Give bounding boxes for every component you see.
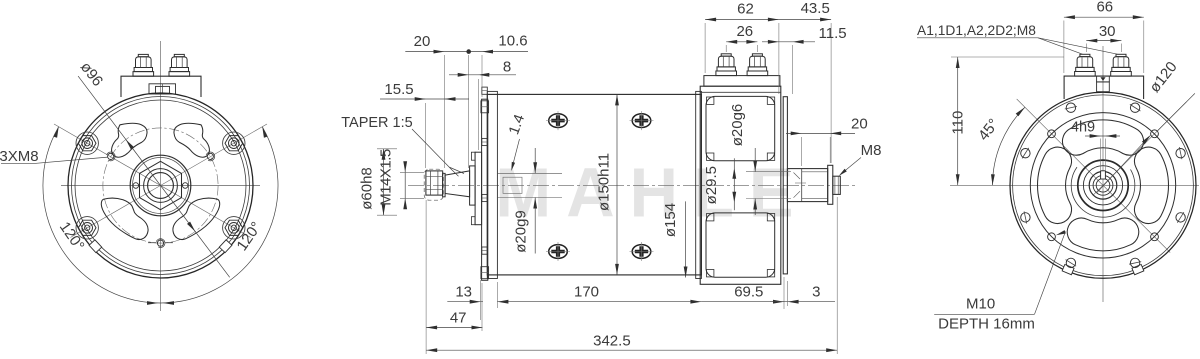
middle view cross screw top-left — [549, 114, 568, 128]
svg-text:62: 62 — [737, 1, 754, 18]
middle view end shield clip top — [481, 101, 489, 113]
middle dim dia20g9 arrows — [534, 198, 536, 254]
svg-text:TAPER 1:5: TAPER 1:5 — [341, 115, 412, 131]
left view centerline 30-210 diagonal — [70, 124, 267, 238]
right dim 66 line — [1064, 16, 1144, 18]
svg-text:DEPTH 16mm: DEPTH 16mm — [938, 316, 1035, 333]
left view hub circle — [130, 155, 191, 216]
left view bolt circle dash-dot — [103, 128, 218, 243]
left view through-bolt lower-right — [223, 217, 245, 239]
middle dim 62 line — [705, 19, 779, 21]
right view M10 hole lower-left — [1048, 233, 1056, 241]
svg-text:4h9: 4h9 — [1071, 120, 1095, 136]
left view terminal block connector detail — [149, 84, 176, 94]
middle dim 26 line — [726, 41, 757, 43]
left view bearing circle — [144, 169, 178, 203]
right view centerline diagonal 135 — [1017, 99, 1170, 253]
middle view nut dashed envelope — [424, 169, 443, 200]
right view terminal stud right — [1111, 72, 1132, 77]
svg-text:3XM8: 3XM8 — [0, 148, 39, 165]
right view terminal block marker detail — [1097, 76, 1110, 82]
right view M10 hole upper-left — [1048, 130, 1056, 138]
right view shaft bore — [1096, 179, 1110, 193]
left view hub notch left — [133, 183, 139, 189]
left view 120 degree arc left — [43, 127, 161, 303]
svg-text:8: 8 — [503, 59, 511, 76]
left view 120 arc right arrow bottom — [163, 301, 174, 305]
right view keyway slot — [1101, 171, 1106, 179]
middle view body band right — [696, 91, 702, 278]
left view dimension diameter 96 arrow upper — [126, 140, 134, 150]
left view 120 arc left arrow bottom — [147, 301, 158, 305]
right view rim screw at 112 deg — [1066, 258, 1075, 267]
middle M8 leader — [841, 158, 861, 175]
left view flange circle 2 — [72, 97, 250, 275]
right view rim screw at 247 deg — [1066, 103, 1075, 112]
middle view band clip tabs left edge — [482, 87, 488, 94]
svg-text:20: 20 — [851, 116, 868, 133]
svg-text:ø154: ø154 — [662, 203, 679, 237]
right view M10 hole upper-right — [1151, 130, 1159, 138]
svg-text:ø20g9: ø20g9 — [513, 210, 530, 253]
middle dim 20 stub line — [786, 132, 855, 134]
right view M10 hole lower-right — [1151, 233, 1159, 241]
svg-text:30: 30 — [1099, 23, 1116, 40]
right dim 30 line — [1086, 40, 1121, 42]
middle view cross screw bottom-left — [549, 245, 568, 259]
left view hub circle inner — [133, 158, 189, 214]
middle view shaft centerline — [408, 184, 858, 186]
left view outer flange circle — [68, 93, 253, 278]
left view through-bolt upper-left — [76, 132, 98, 154]
svg-text:170: 170 — [574, 284, 599, 301]
middle view shaft shoulder — [470, 166, 476, 205]
middle view terminal stud left — [716, 71, 737, 76]
right view face circle — [1030, 113, 1175, 258]
right view hub circle thick — [1078, 160, 1128, 210]
svg-text:M8: M8 — [861, 142, 882, 159]
middle dim 11.5 line — [762, 41, 815, 43]
middle view bearing plate tab bottom — [471, 217, 475, 225]
svg-text:M14X1.5: M14X1.5 — [377, 149, 394, 206]
middle view shaft stub chamfer detail — [794, 173, 807, 198]
left view terminal stud right — [169, 72, 190, 77]
middle view body band left — [487, 91, 497, 278]
middle dim M14X1.5 line — [404, 162, 406, 209]
right view shaft circle 2 — [1093, 175, 1113, 195]
svg-text:47: 47 — [450, 310, 467, 327]
left view dimension diameter 96 line — [78, 76, 230, 277]
right view hub arc — [1071, 167, 1135, 217]
middle taper leader — [412, 129, 464, 176]
left view kidney slot upper-right — [174, 123, 209, 157]
svg-text:3: 3 — [812, 284, 820, 301]
svg-text:A1,1D1,A2,2D2;M8: A1,1D1,A2,2D2;M8 — [917, 23, 1036, 38]
middle view output shaft stub — [787, 169, 827, 202]
left view M8 tapped hole bottom — [157, 240, 163, 246]
right view shaft circle — [1089, 172, 1117, 200]
left view dimension diameter 96 arrow lower — [187, 222, 195, 232]
middle dim 342.5 line — [426, 349, 837, 351]
middle dim 8 line — [449, 74, 516, 76]
left view terminal stud left — [133, 72, 154, 77]
svg-text:ø150h11: ø150h11 — [596, 153, 613, 211]
svg-text:342.5: 342.5 — [593, 333, 631, 350]
right view kidney right — [1134, 147, 1168, 223]
middle view drive housing block — [700, 86, 781, 284]
right view rim screw at 202 deg — [1021, 149, 1030, 158]
svg-text:20: 20 — [414, 33, 431, 50]
right view rim screw at 337 deg — [1176, 149, 1185, 158]
svg-text:43.5: 43.5 — [801, 0, 830, 17]
middle view motor body rectangle — [487, 94, 701, 275]
left view 120 degree arc right — [161, 127, 279, 303]
middle dim 3 line — [770, 301, 835, 303]
middle view terminal base plate — [704, 76, 780, 87]
right view hub circle 2 — [1083, 166, 1122, 205]
middle dim dia60h8 line — [383, 149, 385, 215]
left view rim clip left — [89, 240, 102, 253]
middle view housing cover top — [706, 96, 775, 160]
right view rim screw at 157 deg — [1021, 213, 1030, 222]
left view kidney slot upper-left — [112, 123, 147, 157]
right view centerline vertical — [1102, 46, 1104, 302]
middle view bearing plate — [475, 152, 482, 225]
left view centerline vertical — [160, 41, 162, 311]
left view centerline horizontal — [61, 185, 260, 187]
svg-text:26: 26 — [736, 23, 753, 40]
middle dim 20/10.6 line — [405, 51, 528, 53]
middle view bearing plate tab top — [471, 152, 475, 160]
left view hub notch right — [182, 183, 188, 189]
left view centerline 150-330 diagonal — [54, 124, 251, 238]
svg-text:ø60h8: ø60h8 — [359, 167, 376, 210]
middle dim 47 line — [426, 327, 482, 329]
middle view cross screw bottom-right — [632, 245, 651, 259]
left view through-bolt upper-right — [223, 132, 245, 154]
middle dim 170 line — [497, 301, 701, 303]
right view terminal block — [1064, 76, 1144, 99]
middle view shaft nut M14 — [426, 171, 443, 195]
right M10 leader — [934, 313, 1034, 315]
right view centerline horizontal — [950, 184, 1199, 186]
middle view stub washer — [828, 165, 833, 204]
svg-text:13: 13 — [455, 284, 472, 301]
left view through-bolt lower-left — [76, 217, 98, 239]
svg-text:11.5: 11.5 — [819, 25, 847, 42]
left view rim clip right — [219, 240, 232, 253]
middle view shaft washer — [443, 173, 446, 196]
svg-text:M10: M10 — [966, 296, 995, 313]
right view terminal stud left — [1075, 72, 1096, 77]
middle view terminal stud right — [747, 71, 768, 76]
middle view taper shaft cone — [445, 171, 470, 197]
right dim 110 line — [957, 57, 959, 185]
middle dim 1.4 leader — [513, 139, 520, 166]
middle dim 13 line — [447, 301, 483, 303]
svg-text:MAHLE: MAHLE — [495, 154, 808, 231]
right view rim screw at 292 deg — [1130, 103, 1139, 112]
middle dim 15.5 line — [380, 98, 469, 100]
svg-text:ø29.5: ø29.5 — [703, 166, 720, 204]
svg-text:15.5: 15.5 — [384, 81, 413, 98]
right view kidney bottom — [1067, 218, 1139, 251]
right view outer circle 2 — [1013, 95, 1194, 276]
svg-text:10.6: 10.6 — [498, 33, 527, 50]
right dim 45 deg arc — [993, 107, 1025, 185]
right label terminals underline and leaders — [917, 37, 1038, 39]
left view 120 arc left arrow top — [54, 127, 59, 138]
right view rim screw at 22 deg — [1176, 213, 1185, 222]
svg-text:69.5: 69.5 — [734, 284, 763, 301]
middle view drive housing top line — [700, 91, 781, 93]
right view rim clip lower-right — [1132, 264, 1144, 274]
svg-text:ø20g6: ø20g6 — [729, 104, 746, 147]
left view M8 tapped hole upper-left — [108, 153, 114, 159]
middle view end shield clip bottom — [481, 267, 489, 279]
middle dim 69.5 line — [701, 301, 784, 303]
left view flange circle 3 — [75, 100, 246, 271]
right view outer circle — [1010, 92, 1196, 278]
middle view mounting flange — [783, 97, 787, 274]
middle dim extension lines top-left — [444, 55, 446, 168]
right view rim screw at 67 deg — [1130, 258, 1139, 267]
middle view stub nut M8 — [833, 176, 841, 194]
left view face seam lines at bottom hole — [148, 242, 156, 244]
middle view end shield plate — [482, 99, 488, 280]
middle view housing cover bottom — [706, 213, 775, 277]
middle view hidden armature lines — [497, 172, 562, 174]
right view rim clip lower-left — [1062, 264, 1074, 274]
middle dim 43.5 line — [779, 19, 831, 21]
right view kidney left — [1038, 147, 1072, 223]
left view hub hexagon — [140, 161, 182, 209]
middle dim dia150h11 line — [616, 94, 618, 275]
left view 3XM8 leader line — [1, 162, 36, 164]
right view kidney top — [1062, 120, 1143, 155]
right dim dia120 leader — [1097, 136, 1150, 192]
left view 120 arc right arrow top — [262, 127, 267, 138]
left view M8 tapped hole upper-right — [207, 153, 213, 159]
middle dim dia154 line — [685, 201, 687, 277]
middle dim dia29.5 line — [733, 158, 735, 210]
left view terminal block — [121, 76, 201, 97]
left view shaft bore circle — [148, 173, 174, 199]
svg-text:66: 66 — [1096, 0, 1113, 16]
left view kidney slot lower-right — [173, 198, 220, 239]
left view kidney slot lower-left — [101, 198, 148, 239]
middle dim dia20g6 lines — [754, 148, 756, 172]
middle view cross screw top-right — [632, 114, 651, 128]
right view centerline diagonal 45 — [1093, 102, 1186, 195]
right dim 4h9 arrows — [1085, 135, 1120, 137]
